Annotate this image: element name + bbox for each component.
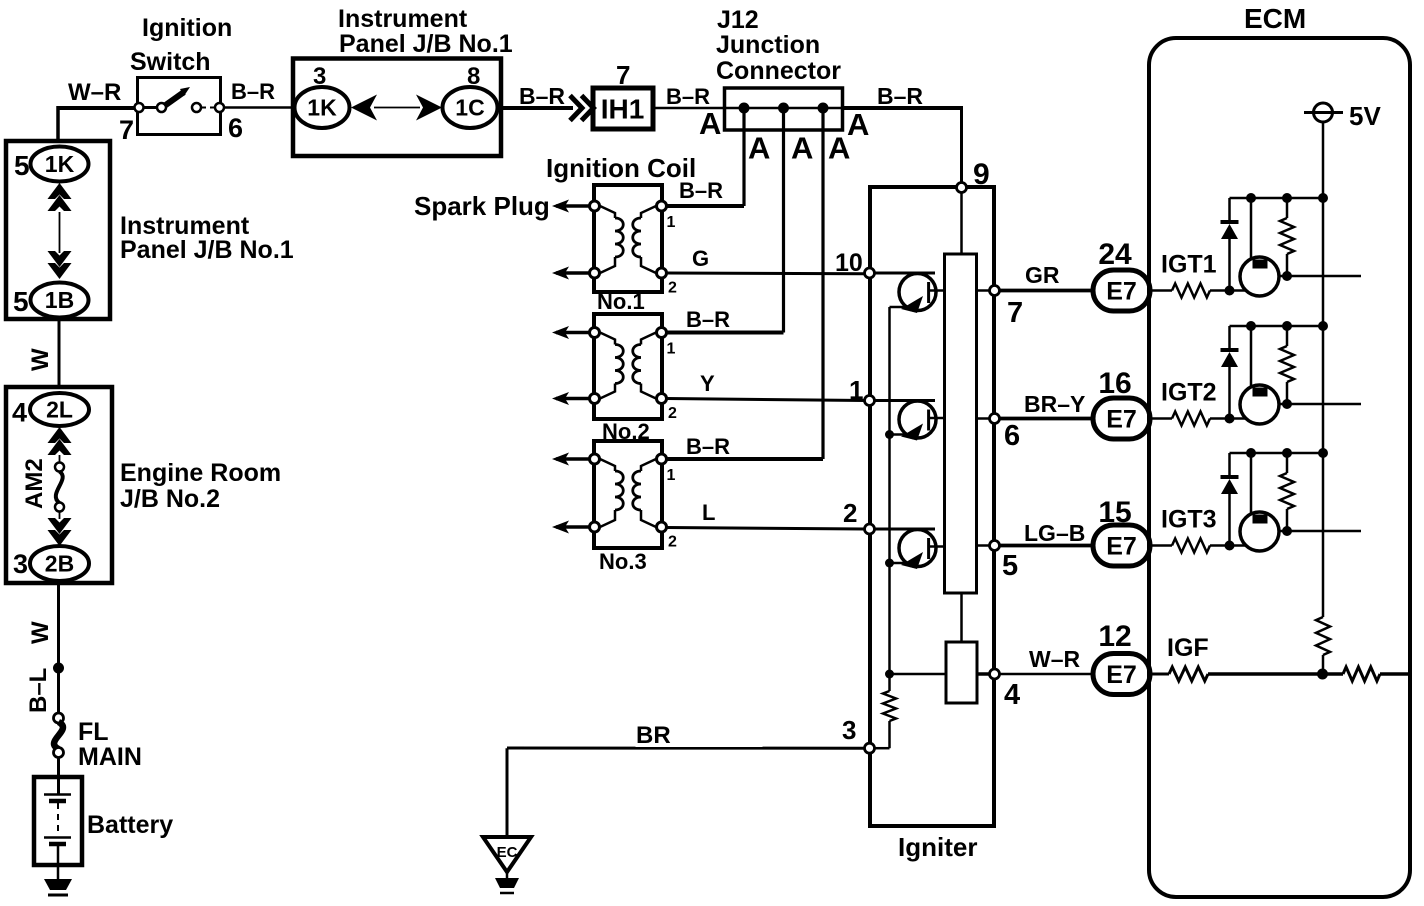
- svg-text:LG–B: LG–B: [1024, 520, 1085, 546]
- wire between 1K and 1B: [59, 212, 61, 253]
- igniter switching block (tall): [945, 254, 977, 593]
- wire igniter to E7 (24): [999, 289, 1093, 293]
- svg-text:12: 12: [1098, 620, 1131, 653]
- wire IH1 to J12 (B-R): [653, 107, 725, 110]
- svg-text:7: 7: [1007, 297, 1023, 329]
- svg-text:Junction: Junction: [716, 31, 820, 59]
- svg-text:2: 2: [668, 405, 677, 422]
- svg-text:Spark Plug: Spark Plug: [414, 191, 550, 221]
- inline connector chevrons: [570, 96, 582, 121]
- ECM IGT3 input resistor: [1150, 544, 1172, 547]
- svg-text:1: 1: [667, 214, 676, 231]
- junction node W/B-L: [53, 663, 64, 674]
- wire coil No.2 pin2 to igniter node 1 (Y): [667, 399, 866, 401]
- double arrow up (J/B internal link): [48, 183, 72, 199]
- wire igniter to E7 (12): [999, 673, 1093, 675]
- igniter node 4: [990, 669, 1000, 679]
- coil No.2 terminal bottom-left to spark plug: [556, 397, 590, 401]
- svg-text:IGT3: IGT3: [1161, 506, 1217, 534]
- svg-text:IGF: IGF: [1167, 634, 1209, 662]
- svg-text:5V: 5V: [1349, 101, 1381, 131]
- wire node 9 to switching block: [960, 192, 963, 255]
- igniter transistor Q2 base wire: [875, 399, 936, 402]
- ECM IGT2 input resistor: [1150, 417, 1172, 420]
- ignition coil No.1 box: [594, 185, 662, 292]
- svg-text:4: 4: [12, 398, 27, 428]
- igniter transistor Q3 base wire: [875, 528, 936, 531]
- svg-text:AM2: AM2: [21, 458, 48, 509]
- coil No.1 terminal top-left to spark plug: [556, 204, 590, 208]
- svg-text:B–R: B–R: [877, 83, 923, 109]
- coil No.3 terminal top-left to spark plug: [556, 457, 590, 461]
- connector 1C (top J/B): [443, 87, 498, 128]
- svg-text:Panel J/B No.1: Panel J/B No.1: [339, 30, 513, 58]
- wire down to EC ground: [506, 748, 509, 838]
- J12 pin dot 1: [739, 103, 750, 114]
- svg-text:2L: 2L: [46, 397, 73, 423]
- junction emitter rail / IGF row: [885, 670, 894, 679]
- svg-text:W: W: [27, 621, 54, 644]
- svg-text:EC: EC: [497, 844, 518, 861]
- svg-text:A: A: [748, 131, 770, 166]
- coil No.2 terminal 1: [657, 328, 667, 338]
- 5V supply symbol: [1314, 103, 1333, 122]
- svg-text:J12: J12: [717, 6, 759, 34]
- svg-text:9: 9: [973, 158, 990, 191]
- ECM IGT3 transistor: [1250, 453, 1253, 519]
- wire J12 to node 9 (B-R): [843, 106, 963, 110]
- coil No.1 primary winding: [600, 206, 615, 218]
- coil No.1 terminal bottom-left to spark plug: [556, 271, 590, 275]
- svg-text:16: 16: [1098, 367, 1131, 400]
- igniter node 3: [865, 743, 875, 753]
- coil No.1 terminal 2: [657, 268, 667, 278]
- svg-text:Instrument: Instrument: [338, 5, 468, 33]
- igniter lower block: [946, 642, 977, 703]
- coil No.2 terminal top-left to spark plug: [556, 331, 590, 335]
- wire through J12: [725, 107, 844, 110]
- wire 2B to battery (W / B-L): [57, 581, 60, 714]
- svg-text:A: A: [791, 131, 813, 166]
- wire coil No.1 pin1 to J12 pin A (B-R): [667, 204, 745, 208]
- double arrow up into 2L: [48, 427, 72, 443]
- svg-text:B–R: B–R: [519, 83, 565, 109]
- igniter transistor Q3: [899, 530, 936, 567]
- svg-text:GR: GR: [1025, 262, 1060, 288]
- svg-text:Battery: Battery: [87, 811, 173, 839]
- ECM IGT3 output line: [1279, 530, 1361, 533]
- svg-text:Y: Y: [700, 371, 715, 396]
- svg-text:IGT1: IGT1: [1161, 251, 1217, 279]
- svg-text:5: 5: [1002, 550, 1018, 582]
- coil No.1 secondary winding: [641, 206, 656, 218]
- wire down to node 9: [960, 107, 963, 183]
- wire 1B to engine room J/B (W): [58, 317, 61, 389]
- igniter input node row 3: [865, 524, 875, 534]
- coil No.2 terminal 2: [657, 394, 667, 404]
- svg-text:2B: 2B: [45, 551, 74, 577]
- wire coil No.2 pin1 to J12 pin A (B-R): [667, 331, 784, 335]
- ignition coil No.3 box: [594, 441, 662, 548]
- double arrow down into 2B: [48, 530, 72, 546]
- ground below battery: [57, 865, 60, 881]
- junction emitter Q3: [885, 559, 894, 568]
- svg-text:1: 1: [849, 375, 863, 405]
- ECM IGT1 input resistor: [1150, 289, 1172, 292]
- svg-text:BR: BR: [636, 722, 671, 749]
- igniter output to pin row 3: [977, 544, 991, 547]
- svg-text:24: 24: [1098, 238, 1132, 271]
- ignition switch SW1: [138, 78, 221, 135]
- ECM IGT2 pull-up resistor: [1280, 346, 1294, 382]
- fusible link FL MAIN: [54, 713, 64, 723]
- instrument panel J/B No.1 top box: [293, 59, 501, 157]
- ECM IGT3 driver top rail: [1230, 452, 1324, 455]
- coil No.2 primary winding: [600, 333, 615, 345]
- svg-text:A: A: [828, 131, 850, 166]
- wire igniter to E7 (16): [999, 417, 1093, 421]
- svg-text:J/B No.2: J/B No.2: [120, 485, 220, 513]
- svg-text:IGT2: IGT2: [1161, 379, 1217, 407]
- svg-text:E7: E7: [1106, 533, 1137, 561]
- svg-text:5: 5: [13, 286, 29, 317]
- wire coil No.3 pin1 to J12 pin A (B-R): [667, 457, 824, 461]
- svg-text:BR–Y: BR–Y: [1024, 391, 1085, 417]
- svg-text:E7: E7: [1106, 406, 1137, 434]
- wire coil No.1 pin2 to igniter node 10 (G): [667, 272, 866, 276]
- svg-text:No.3: No.3: [599, 549, 647, 574]
- coil No.1 terminal 1: [657, 201, 667, 211]
- connector 1K (top J/B): [295, 87, 350, 128]
- double arrow down (J/B internal link): [48, 263, 72, 279]
- wire between arrows: [374, 107, 420, 109]
- svg-text:4: 4: [1004, 679, 1020, 711]
- svg-text:B–R: B–R: [686, 434, 730, 459]
- svg-text:3: 3: [842, 715, 856, 745]
- ECM IGT3 diode: [1228, 453, 1231, 477]
- svg-text:ECM: ECM: [1244, 3, 1306, 34]
- ECM IGT1 diode: [1228, 198, 1231, 222]
- svg-text:B–R: B–R: [686, 307, 730, 332]
- coil No.3 secondary winding: [641, 459, 656, 471]
- svg-text:Ignition Coil: Ignition Coil: [546, 153, 696, 183]
- ECM IGT2 transistor: [1250, 326, 1253, 392]
- ground EC: [483, 837, 531, 872]
- svg-text:E7: E7: [1106, 661, 1137, 689]
- svg-text:Engine Room: Engine Room: [120, 459, 281, 487]
- igniter transistor Q1 base wire: [875, 272, 936, 275]
- node 9 on igniter: [957, 183, 967, 193]
- svg-text:Connector: Connector: [716, 57, 841, 85]
- svg-text:Ignition: Ignition: [142, 14, 232, 42]
- svg-text:Switch: Switch: [130, 48, 211, 76]
- ECM IGT2 output line: [1279, 403, 1361, 406]
- link between blocks: [960, 593, 963, 643]
- svg-text:1K: 1K: [45, 151, 75, 177]
- engine room J/B No.2 box: [6, 387, 112, 583]
- svg-text:1K: 1K: [307, 95, 337, 121]
- wire coil No.3 pin2 to igniter node 2 (L): [667, 528, 866, 530]
- ECM 5V rail resistor: [1316, 617, 1330, 655]
- svg-text:No.1: No.1: [597, 289, 645, 314]
- ECM IGF output resistor: [1323, 672, 1344, 676]
- svg-text:2: 2: [668, 280, 677, 297]
- svg-text:FL: FL: [78, 718, 109, 746]
- svg-text:6: 6: [228, 113, 243, 143]
- igniter transistor Q1: [899, 274, 936, 311]
- instrument panel J/B No.1 left box: [6, 141, 110, 319]
- wire switch pin6 to connector 1K: [224, 106, 295, 109]
- igniter input node row 2: [865, 396, 875, 406]
- ECM IGT2 diode: [1228, 326, 1231, 350]
- svg-text:W: W: [27, 348, 54, 371]
- svg-text:1: 1: [667, 467, 676, 484]
- ECM box: [1149, 38, 1410, 897]
- J12 pin dot 3: [818, 103, 829, 114]
- coil No.3 terminal 1: [657, 454, 667, 464]
- arrowhead left into 1K: [351, 95, 377, 121]
- svg-text:Panel J/B No.1: Panel J/B No.1: [120, 236, 294, 264]
- svg-text:3: 3: [13, 549, 28, 579]
- junction connector J12 box: [725, 88, 843, 130]
- coil No.3 primary winding: [600, 459, 615, 471]
- wire 1C to IH1 (B-R): [497, 106, 573, 110]
- igniter output to pin row 1: [977, 289, 991, 292]
- ECM IGT3 pull-up resistor: [1280, 473, 1294, 509]
- igniter resistor to ground: [883, 691, 896, 721]
- J12 pin dot 2: [778, 103, 789, 114]
- ECM IGT1 pull-up resistor: [1280, 218, 1294, 254]
- ECM IGT2 driver top rail: [1230, 325, 1324, 328]
- svg-text:Igniter: Igniter: [898, 832, 977, 862]
- svg-text:1B: 1B: [45, 287, 74, 313]
- svg-text:E7: E7: [1106, 278, 1137, 306]
- svg-text:1: 1: [667, 341, 676, 358]
- svg-text:IH1: IH1: [601, 94, 645, 125]
- svg-text:5: 5: [14, 150, 30, 181]
- arrowhead right into 1C: [416, 95, 442, 121]
- igniter IGF row wire: [890, 673, 947, 676]
- ECM IGT1 output line: [1279, 275, 1361, 278]
- svg-text:1C: 1C: [455, 95, 484, 121]
- svg-text:2: 2: [668, 534, 677, 551]
- junction emitter Q2: [885, 430, 894, 439]
- svg-text:B–R: B–R: [679, 178, 723, 203]
- junction IGF / 5V rail: [1317, 669, 1328, 680]
- wire igniter to E7 (15): [999, 544, 1093, 548]
- igniter transistor Q2: [899, 401, 936, 438]
- ECM IGT1 driver top rail: [1230, 197, 1324, 200]
- svg-text:B–L: B–L: [25, 668, 52, 713]
- svg-text:G: G: [692, 246, 709, 271]
- svg-text:MAIN: MAIN: [78, 743, 142, 771]
- ignition coil No.2 box: [594, 314, 662, 419]
- svg-text:6: 6: [1004, 420, 1020, 452]
- svg-text:L: L: [702, 500, 715, 525]
- igniter box: [870, 187, 994, 826]
- svg-text:10: 10: [835, 249, 863, 277]
- ECM IGT1 transistor: [1250, 198, 1253, 264]
- svg-text:W–R: W–R: [1029, 646, 1081, 672]
- svg-text:B–R: B–R: [231, 79, 275, 104]
- wire BR ground wire to igniter node 3: [507, 747, 865, 750]
- coil No.3 terminal bottom-left to spark plug: [556, 525, 590, 529]
- svg-text:A: A: [699, 106, 721, 141]
- svg-text:7: 7: [119, 115, 134, 145]
- wire W-R from J/B No.1 to ignition switch: [58, 106, 139, 110]
- battery B1: [57, 757, 60, 795]
- igniter input node row 1: [865, 268, 875, 278]
- coil No.2 secondary winding: [641, 333, 656, 345]
- igniter emitter rail: [888, 307, 891, 691]
- svg-text:2: 2: [843, 498, 857, 528]
- 5V rail: [1322, 122, 1325, 617]
- svg-text:W–R: W–R: [68, 79, 121, 106]
- coil No.3 terminal 2: [657, 522, 667, 532]
- igniter output to pin row 2: [977, 417, 991, 420]
